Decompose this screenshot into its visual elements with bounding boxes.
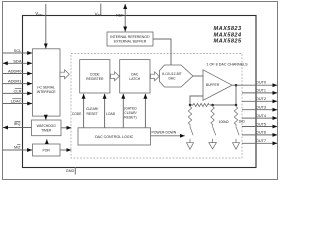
svg-text:RESET: RESET bbox=[87, 112, 98, 116]
wire watchdog to channels bbox=[61, 127, 71, 129]
svg-text:8-/10-/12-BIT: 8-/10-/12-BIT bbox=[162, 72, 181, 76]
bus arrow: DAC latch to DAC bbox=[151, 72, 160, 81]
svg-text:I²C SERIAL: I²C SERIAL bbox=[37, 86, 55, 90]
wire buffer output to OUT0 bbox=[232, 84, 277, 86]
resistor + switch + ground branch 2 (100k) bbox=[209, 105, 217, 149]
block: I2C serial interface bbox=[33, 49, 61, 116]
svg-text:OUT0: OUT0 bbox=[256, 80, 266, 84]
wire buffer feedback input bbox=[190, 96, 203, 105]
wire DAC to buffer bbox=[193, 75, 203, 77]
svg-text:OUT4: OUT4 bbox=[256, 114, 266, 118]
svg-text:MAX5825: MAX5825 bbox=[214, 39, 242, 45]
node on output bbox=[235, 84, 238, 87]
wire clear/reset to code register bbox=[104, 94, 106, 128]
svg-text:DAC: DAC bbox=[131, 73, 139, 77]
svg-text:ADDR1: ADDR1 bbox=[8, 79, 22, 84]
svg-text:IRQ: IRQ bbox=[14, 122, 21, 126]
wire VDD into serial interface bbox=[45, 4, 47, 48]
resistor + switch + ground branch 3 (1k) bbox=[233, 105, 240, 149]
bus arrow: code register to DAC latch bbox=[111, 72, 120, 81]
wire power-down bbox=[151, 135, 185, 137]
svg-text:BUFFER: BUFFER bbox=[206, 83, 220, 87]
bus arrow: interface to code register bbox=[60, 70, 69, 79]
svg-text:OUT3: OUT3 bbox=[256, 106, 266, 110]
svg-text:POR: POR bbox=[43, 149, 51, 153]
svg-text:OUT6: OUT6 bbox=[256, 131, 266, 135]
svg-text:DAC: DAC bbox=[169, 77, 177, 81]
wire code to code register bbox=[83, 94, 85, 128]
resistor horizontal feedback bbox=[193, 103, 209, 106]
svg-text:EXTERNAL BUFFER: EXTERNAL BUFFER bbox=[114, 40, 147, 44]
block: DAC latch bbox=[120, 60, 150, 93]
svg-text:CLR: CLR bbox=[13, 88, 21, 93]
outer page border bbox=[3, 2, 278, 180]
svg-text:CLEAR/: CLEAR/ bbox=[86, 107, 98, 111]
svg-text:MAX5823: MAX5823 bbox=[214, 26, 242, 32]
svg-text:INTERFACE: INTERFACE bbox=[37, 90, 57, 94]
block: code register bbox=[80, 60, 110, 93]
svg-text:POWER-DOWN: POWER-DOWN bbox=[152, 131, 177, 135]
svg-text:ADDR0: ADDR0 bbox=[8, 69, 22, 74]
wire VSS stub bbox=[100, 4, 102, 16]
svg-text:MAX5824: MAX5824 bbox=[214, 32, 242, 38]
svg-text:SCL: SCL bbox=[14, 48, 23, 53]
svg-text:CLEAR/: CLEAR/ bbox=[124, 111, 136, 115]
op-amp buffer bbox=[203, 70, 232, 101]
block: DAC control logic bbox=[78, 128, 151, 145]
svg-text:LATCH: LATCH bbox=[129, 77, 140, 81]
svg-text:OUT1: OUT1 bbox=[256, 89, 266, 93]
svg-text:OUT7: OUT7 bbox=[256, 139, 266, 143]
svg-text:GND: GND bbox=[66, 169, 75, 173]
svg-text:REF: REF bbox=[116, 14, 124, 18]
block: internal reference / external buffer bbox=[107, 32, 153, 46]
dashed box: 1 of 8 DAC channels bbox=[71, 54, 242, 159]
svg-text:WATCHDOG: WATCHDOG bbox=[37, 124, 57, 128]
svg-text:M/Z: M/Z bbox=[14, 145, 21, 149]
svg-text:LOAD: LOAD bbox=[106, 112, 116, 116]
wire output down to feedback bbox=[235, 85, 237, 105]
feedback line with nodes bbox=[190, 104, 193, 106]
resistor + switch + ground branch 1 bbox=[187, 105, 194, 149]
wire POR to channels bbox=[60, 149, 71, 151]
block: watchdog timer bbox=[32, 120, 62, 136]
svg-text:TIMER: TIMER bbox=[41, 128, 52, 132]
wire POR to watchdog bbox=[46, 139, 48, 144]
svg-text:INTERNAL REFERENCE/: INTERNAL REFERENCE/ bbox=[110, 35, 149, 39]
svg-text:1 OF 8 DAC CHANNELS: 1 OF 8 DAC CHANNELS bbox=[206, 63, 248, 67]
wire gated clear/reset to DAC latch bbox=[144, 94, 146, 128]
block: POR bbox=[33, 144, 61, 156]
svg-text:RESET): RESET) bbox=[124, 116, 136, 120]
wire reference to DAC bbox=[153, 39, 171, 65]
wire REF bidirectional bbox=[124, 4, 126, 32]
wire interface to watchdog bbox=[45, 116, 47, 120]
svg-text:OUT5: OUT5 bbox=[256, 122, 266, 126]
part numbers MAX5823 MAX5824 MAX5825 bbox=[214, 26, 242, 45]
svg-text:(GATED: (GATED bbox=[124, 106, 137, 110]
svg-text:DAC CONTROL LOGIC: DAC CONTROL LOGIC bbox=[95, 135, 134, 139]
svg-text:REGISTER: REGISTER bbox=[86, 77, 104, 81]
block: 8/10/12-bit DAC bbox=[160, 65, 194, 87]
svg-text:OUT2: OUT2 bbox=[256, 97, 266, 101]
svg-text:1kΩ: 1kΩ bbox=[239, 119, 246, 123]
svg-text:LDAC: LDAC bbox=[11, 99, 22, 104]
svg-text:CODE: CODE bbox=[90, 73, 101, 77]
svg-text:100kΩ: 100kΩ bbox=[219, 120, 229, 124]
svg-text:CODE: CODE bbox=[72, 112, 83, 116]
chip body outline bbox=[23, 16, 257, 168]
wire load to DAC latch bbox=[122, 94, 124, 128]
svg-text:VDD: VDD bbox=[35, 11, 43, 17]
svg-text:SDA: SDA bbox=[13, 58, 22, 63]
